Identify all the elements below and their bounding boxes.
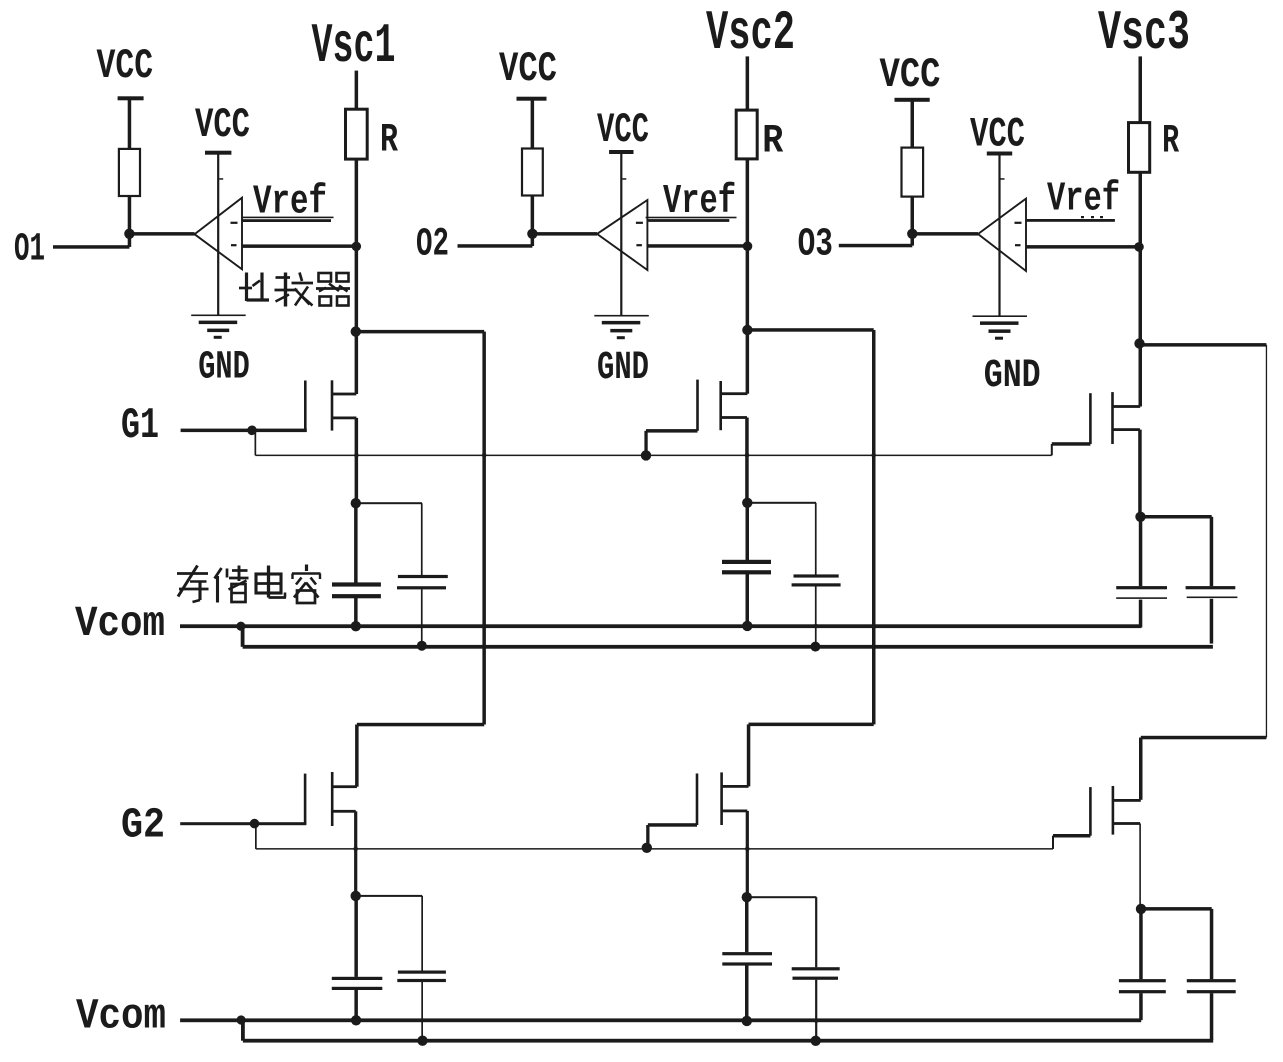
svg-text:VCC: VCC (597, 106, 649, 154)
svg-text:Vsc3: Vsc3 (1098, 2, 1190, 65)
svg-text:VCC: VCC (970, 111, 1025, 159)
svg-text:Vsc1: Vsc1 (312, 15, 396, 78)
svg-text:G2: G2 (121, 802, 165, 850)
svg-text:R: R (380, 118, 398, 163)
svg-text:VCC: VCC (97, 42, 154, 90)
svg-text:G1: G1 (121, 401, 159, 451)
svg-text:O2: O2 (416, 222, 449, 267)
svg-text:Vcom: Vcom (76, 993, 166, 1041)
svg-text:VCC: VCC (880, 51, 941, 99)
svg-text:Vcom: Vcom (75, 600, 165, 648)
svg-text:R: R (1162, 119, 1179, 164)
svg-text:Vsc2: Vsc2 (706, 2, 795, 65)
svg-text:VCC: VCC (195, 101, 250, 149)
svg-text:R: R (762, 119, 783, 164)
svg-text:VCC: VCC (499, 45, 557, 93)
svg-text:O1: O1 (14, 227, 45, 272)
svg-text:GND: GND (597, 345, 649, 390)
svg-text:Vref: Vref (253, 180, 327, 226)
svg-text:GND: GND (984, 353, 1041, 398)
svg-text:O3: O3 (798, 222, 833, 267)
svg-text:Vref: Vref (1047, 177, 1120, 223)
svg-text:GND: GND (198, 345, 250, 390)
